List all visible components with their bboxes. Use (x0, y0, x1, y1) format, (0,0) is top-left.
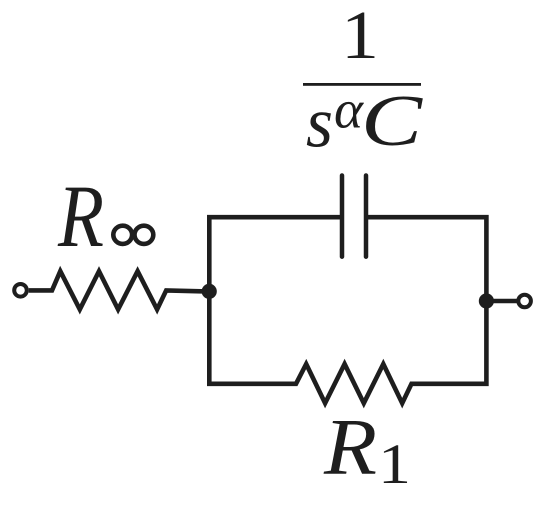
svg-text:1: 1 (341, 0, 379, 73)
svg-text:1: 1 (378, 433, 411, 496)
svg-text:R: R (323, 401, 377, 491)
svg-text:C: C (361, 80, 424, 161)
svg-text:s: s (306, 83, 333, 163)
svg-text:R: R (57, 168, 104, 266)
